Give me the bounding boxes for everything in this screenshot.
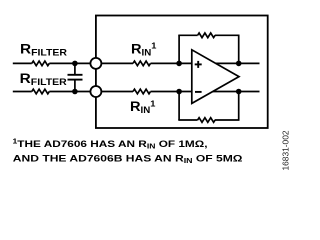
resistor RFILTER top xyxy=(32,61,50,66)
wire capacitor branch top xyxy=(74,63,76,74)
junction dot bottom-left xyxy=(72,89,78,95)
wire top-left input xyxy=(13,62,32,64)
op-amp plus input xyxy=(195,61,202,68)
wire feedback top horizontal right xyxy=(215,34,240,36)
capacitor C xyxy=(68,75,83,80)
wire feedback bottom horizontal right xyxy=(215,119,240,121)
wire bottom to op-amp xyxy=(151,91,192,93)
wire top to op-amp xyxy=(151,62,192,64)
resistor feedback top xyxy=(198,33,215,38)
resistor RIN top xyxy=(133,61,150,66)
junction dot output top xyxy=(236,61,242,67)
resistor feedback bottom xyxy=(198,118,215,123)
svg-text:1THE AD7606 HAS AN RIN OF 1MΩ,: 1THE AD7606 HAS AN RIN OF 1MΩ, xyxy=(13,139,208,151)
wire capacitor branch bottom xyxy=(74,80,76,92)
wire top to terminal xyxy=(49,62,92,64)
wire top inside xyxy=(96,62,133,64)
wire feedback top left vertical xyxy=(178,35,180,63)
wire bottom-left input xyxy=(13,91,32,93)
svg-text:16831-002: 16831-002 xyxy=(280,130,290,170)
op-amp U1 xyxy=(192,50,239,104)
wire output top xyxy=(205,62,260,64)
box ADC outline xyxy=(96,16,268,129)
wire feedback top right vertical xyxy=(238,35,240,63)
wire feedback top horizontal left xyxy=(178,34,197,36)
op-amp minus input xyxy=(195,91,202,93)
junction dot op-amp plus xyxy=(176,61,182,67)
wire feedback bottom horizontal left xyxy=(178,119,197,121)
wire bottom to terminal xyxy=(49,91,92,93)
svg-text:AND THE AD7606B HAS AN RIN OF: AND THE AD7606B HAS AN RIN OF 5MΩ xyxy=(13,153,243,165)
junction dot output bottom xyxy=(236,89,242,95)
resistor RIN bottom xyxy=(133,89,150,94)
wire output bottom xyxy=(205,91,260,93)
wire feedback bottom right vertical xyxy=(238,92,240,121)
wire feedback bottom left vertical xyxy=(178,92,180,121)
terminal circle bottom xyxy=(90,86,101,97)
junction dot top-left xyxy=(72,61,78,67)
terminal circle top xyxy=(90,58,101,69)
resistor RFILTER bottom xyxy=(32,89,50,94)
junction dot op-amp minus xyxy=(176,89,182,95)
wire bottom inside xyxy=(96,91,133,93)
